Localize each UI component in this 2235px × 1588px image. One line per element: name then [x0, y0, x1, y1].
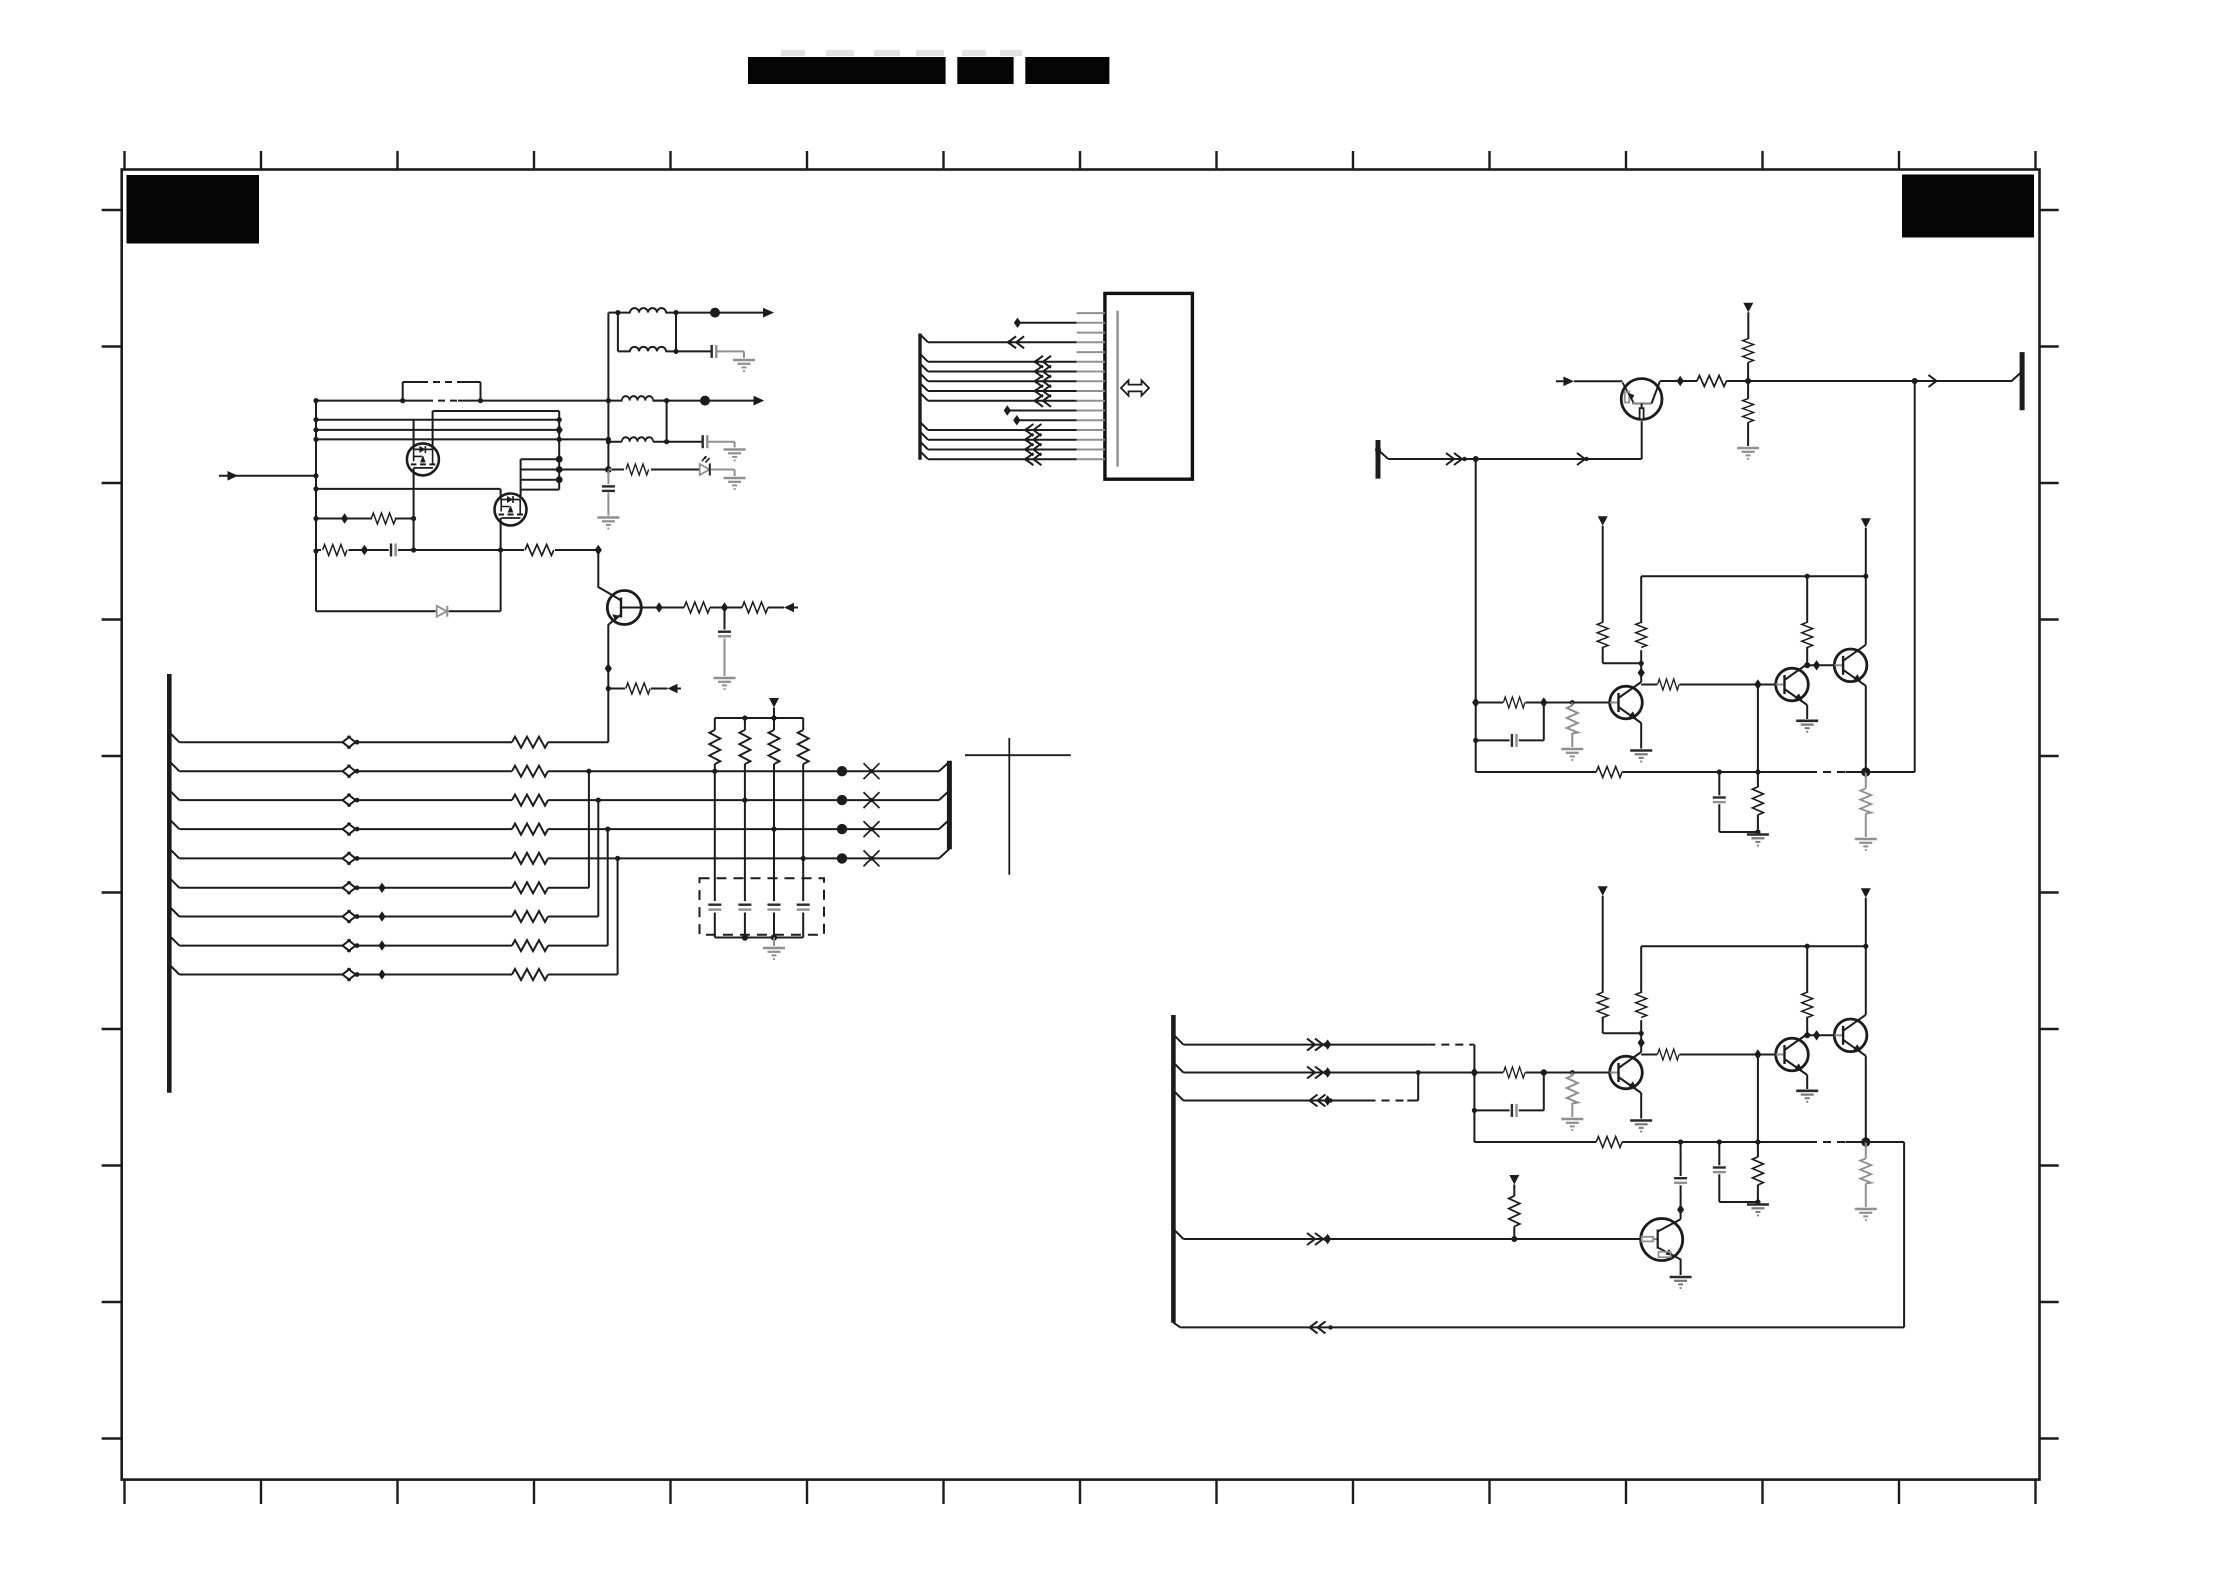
wire filter A left vertical [617, 313, 619, 352]
node emitter chain resistor tap [606, 686, 611, 691]
diamond junction on emitter chain [605, 663, 612, 673]
double chevron marker pin 16 [1025, 453, 1042, 465]
wire join row I to row E [617, 858, 619, 974]
resistor mid base bleed [1567, 706, 1578, 734]
cross marker row D [864, 821, 880, 837]
node bank rail 1 [742, 715, 747, 720]
wire Q1 source lead down [413, 468, 415, 551]
wire row B [179, 770, 939, 772]
diamond junction base row 1 [656, 602, 663, 612]
capacitor C2 [703, 435, 708, 448]
ground mid shunt [1747, 835, 1769, 846]
wire gate resistor row R-G1 [316, 518, 414, 520]
resistor R-LED [626, 464, 649, 475]
wire LED to ground [710, 470, 734, 477]
capacitor C-B1 [718, 632, 731, 637]
wire L3-L4 right vertical [666, 401, 668, 442]
inductor L2 [630, 347, 666, 352]
resistor R-rowC [512, 795, 548, 806]
wire winding row 3 [316, 438, 608, 440]
connector J1 double-arrow symbol [1121, 380, 1149, 395]
wire bottom row2 from bus [1173, 1063, 1474, 1073]
wire mid Ra bottom [1603, 647, 1642, 664]
ground bot bleed [1561, 1119, 1583, 1130]
wire mid shunt leads [1757, 772, 1759, 832]
wire connector pin 11 from diamond [1007, 410, 1076, 412]
wire mid bleed to ground [1571, 733, 1573, 747]
node L3-L4 right vertical top [664, 398, 669, 403]
capacitor mid bottom [1718, 772, 1720, 795]
resistor mid right shunt [1860, 788, 1871, 813]
connector pin 8 stub [1077, 380, 1105, 382]
node stub bar tap [1375, 447, 1381, 453]
node mid cap row [1473, 738, 1478, 743]
wire mid Rc chain [1806, 576, 1808, 664]
wire T4 collector chain up [1680, 1142, 1682, 1219]
wire bus entry row F [169, 878, 179, 888]
connector pin 6 stub [1077, 361, 1105, 363]
connector pin 16 stub [1077, 458, 1105, 460]
node T4 chain at bottom row [1678, 1139, 1683, 1144]
node filter A top-left [615, 310, 620, 315]
wire T4 pull-up stem [1513, 1185, 1515, 1197]
frame tick marks right [2040, 210, 2059, 1439]
wire long right vertical to lower row [1914, 381, 1916, 772]
bidirectional marker row A [343, 736, 360, 748]
bidirectional marker row I [343, 968, 360, 980]
wire T4 pull-up to row [1513, 1227, 1515, 1239]
wire mid Rb top to rail [1641, 576, 1866, 623]
wire row E [179, 857, 939, 859]
node top-right tee [1912, 378, 1918, 384]
wire R12 to node [1747, 362, 1749, 381]
wire resistor bank top rail [715, 717, 803, 719]
resistor bot Ra [1597, 992, 1608, 1017]
wire mid bleed resistor top [1571, 703, 1573, 707]
wire bank ground stem [773, 938, 775, 947]
inductor L3 [622, 396, 653, 401]
node row D at resistor-bank column [771, 827, 776, 832]
wire C2 to ground [707, 442, 734, 448]
wire L1 left stub [618, 312, 676, 314]
diamond junction row H [378, 940, 385, 950]
node RC row meets Q2 source chain [498, 547, 503, 552]
node ladder rung 1 [556, 456, 563, 463]
bidirectional marker row D [343, 823, 360, 835]
wire base row capacitor leg [724, 608, 726, 630]
double chevron marker pin 10 [1034, 395, 1051, 407]
wire bot bleed to ground [1571, 1103, 1573, 1117]
arrow off-page left on base row [784, 603, 794, 612]
ground bot shunt [1747, 1205, 1769, 1216]
wire row C [179, 799, 939, 801]
capacitor C1 [712, 345, 717, 358]
wire Q2 gate row [316, 488, 501, 490]
wire Q3 base row [641, 607, 798, 609]
connector pin 1 stub [1077, 312, 1105, 314]
diamond junction collector feed [595, 545, 602, 555]
diamond junction row3 [1324, 1095, 1331, 1105]
capacitor bot speedup [1512, 1104, 1517, 1117]
node mid rail supply [1863, 574, 1868, 579]
wire mid bottom row dashed part [1809, 771, 1846, 773]
ground T4 emitter [1670, 1277, 1692, 1288]
transistor Q1 dual-MOSFET half A [407, 443, 439, 475]
dashed box around capacitor bank [700, 878, 825, 934]
wire bottom row1 from bus [1173, 1035, 1474, 1045]
node bank rail 2 [771, 715, 776, 720]
diamond junction mid T2 base [1754, 679, 1761, 689]
wire row H [179, 945, 607, 947]
transistor mid-T2 NPN [1776, 664, 1809, 705]
chevron marker top-right [1929, 375, 1937, 387]
wire bottom jog right vertical [1866, 1142, 1904, 1327]
node mid shunt ground [1755, 829, 1760, 834]
wire bottom row5 return [1173, 1323, 1904, 1328]
wire mid bottom row [1476, 771, 1866, 773]
wire Q10 emitter row [1378, 450, 1642, 459]
wire L2 to capacitor C1 [676, 350, 712, 352]
wire bank column 3 [773, 718, 775, 938]
capacitor mid speedup [1512, 734, 1517, 747]
node rail junction [313, 486, 318, 491]
node rail junction [313, 548, 318, 553]
capacitor T4 collector [1674, 1178, 1687, 1183]
wire left rail of FET block [315, 401, 317, 612]
double chevron marker pin 6 [1034, 356, 1051, 368]
double chevron marker emitter row [1446, 453, 1467, 465]
transistor mid-T3 NPN [1834, 645, 1867, 686]
double chevron marker pin 7 [1034, 366, 1051, 378]
frame tick marks bottom [125, 1480, 2036, 1504]
resistor bot Rb [1636, 992, 1647, 1017]
diamond terminal pin 2 [1014, 318, 1021, 328]
resistor R-rowI [512, 969, 548, 980]
wire winding ladder bottom rung [521, 489, 560, 491]
double chevron marker row3 left-pointing [1310, 1095, 1333, 1107]
wire bot T1-T2 base row [1641, 1054, 1776, 1056]
wire row C bus-bar entry [939, 791, 949, 801]
wire bot bleed resistor top [1571, 1073, 1573, 1077]
capacitor C-bank2 [738, 905, 751, 910]
jumper box with dashed edges [403, 382, 481, 401]
wire bottom row3 from bus [1173, 1073, 1418, 1101]
diamond junction mid base row [1472, 697, 1479, 707]
wire bot bottom row dashed part [1809, 1141, 1846, 1143]
diamond junction bot T1 collector [1638, 1038, 1645, 1048]
wire dashed segment under jumper box [426, 400, 458, 402]
cross marker row B [864, 763, 880, 779]
node row B at resistor-bank column [712, 769, 717, 774]
wire Q1 drain lead [432, 411, 434, 449]
wire Q3 emitter chain down [608, 624, 609, 743]
ground mid T1 emitter [1630, 751, 1652, 762]
wire connector pin 2 from diamond [1018, 322, 1077, 324]
diamond junction row4 [1324, 1234, 1331, 1244]
node rail junction [313, 427, 318, 432]
bus connector-side vertical [918, 334, 921, 460]
wire Q10 emitter down to row [1641, 421, 1643, 459]
wire bus entry row I [169, 965, 179, 975]
wire bot supply B stem [1865, 898, 1867, 946]
wire row D bus-bar entry [939, 820, 949, 830]
wire connector pin 9 from bus [920, 383, 1077, 391]
cross-reference cross mark [965, 738, 1071, 875]
wire T4 emitter to ground [1678, 1258, 1681, 1275]
wire bus entry row A [169, 732, 179, 742]
cross marker row E [864, 850, 880, 866]
wire bus entry row C [169, 790, 179, 800]
resistor R-bank1 [709, 730, 720, 764]
node rail junction [313, 473, 318, 478]
resistor mid Ra [1597, 622, 1608, 647]
wire bot-T1 emitter to ground [1640, 1093, 1642, 1119]
node L4 right [664, 439, 669, 444]
wire bot cap row [1474, 1073, 1543, 1111]
node output row 2 [700, 396, 710, 406]
ground mid right shunt [1855, 839, 1877, 850]
diamond junction mid T1 collector [1638, 668, 1645, 678]
wire connector pin 15 from bus [920, 442, 1077, 450]
node RC row meets Q1 source chain [411, 547, 416, 552]
title redaction box 3 [1025, 57, 1109, 84]
transistor mid-T1 NPN [1610, 682, 1643, 723]
node bot cap row [1472, 1108, 1477, 1113]
node winding row 3 at inner bus [557, 437, 562, 442]
wire row A [179, 741, 608, 743]
capacitor C-RC1 [391, 544, 396, 557]
node row4 pull-up tap [1511, 1236, 1517, 1242]
wire join row H to row D [607, 829, 609, 946]
wire connector pin 10 from bus [920, 393, 1077, 401]
resistor bot feedback [1596, 1137, 1622, 1148]
wire emitter tap row [608, 688, 681, 690]
wire cap to ground [607, 493, 609, 516]
bidirectional marker row H [343, 939, 360, 951]
wire winding ladder rung 1 [521, 458, 560, 460]
wire bottom return with diode [316, 610, 501, 612]
power supply arrow bot B [1861, 888, 1871, 898]
resistor R-rowB [512, 766, 548, 777]
wire cap leg to ground [724, 639, 726, 677]
node mid base bleed tap [1570, 700, 1575, 705]
diamond junction base row 2 [721, 602, 728, 612]
capacitor C-BUS on vertical bus [602, 486, 615, 491]
ground bot T1 emitter [1630, 1121, 1652, 1132]
wire bot-T1 collector up [1640, 1020, 1642, 1052]
wire bottom row4 from bus [1173, 1229, 1640, 1239]
wire bot-T3 collector up [1865, 946, 1867, 1015]
wire bot-T2 collector up [1806, 1033, 1808, 1035]
power supply arrow above T4 [1509, 1175, 1519, 1185]
corner label box top-right [1902, 175, 2034, 238]
capacitor C-bank4 [797, 905, 810, 910]
double chevron marker row2 [1307, 1067, 1328, 1079]
connector pin 2 stub [1077, 322, 1105, 324]
resistor bot base series [1503, 1067, 1525, 1078]
diamond junction bot base row [1471, 1067, 1478, 1077]
inductor L1 [630, 308, 666, 313]
wire join row G to row C [597, 800, 599, 916]
arrow output row 2 [754, 396, 765, 406]
resistor R-rowA [512, 737, 548, 748]
node output row 1 [710, 308, 720, 318]
bidirectional marker row B [343, 765, 360, 777]
connector pin 13 stub [1077, 429, 1105, 431]
wire mid-T2 collector up [1806, 663, 1808, 665]
diamond junction row G [378, 911, 385, 921]
resistor R-rowH [512, 940, 548, 951]
wire connector pin 8 from bus [920, 373, 1077, 381]
connector pin 7 stub [1077, 371, 1105, 373]
wire bus entry row D [169, 819, 179, 829]
wire bot Ra bottom [1603, 1017, 1642, 1034]
wire mid bottom cap lower [1719, 804, 1758, 832]
wire mid bottom row jog to right vertical [1866, 771, 1915, 773]
transistor bot-T3 NPN [1834, 1015, 1867, 1056]
node winding row 3 at vertical bus [606, 437, 611, 442]
ground below C-BUS [597, 518, 619, 529]
cross marker row C [864, 792, 880, 808]
node jumper box left pin [400, 398, 405, 403]
ground below C1 [733, 360, 755, 371]
resistor mid interstage [1658, 679, 1680, 690]
connector pin 11 stub [1077, 410, 1105, 412]
resistor R-G1 [371, 513, 395, 524]
wire winding ladder rung 2 [521, 469, 560, 471]
node ladder rung 3 [556, 476, 563, 483]
diamond junction mid base mid [1540, 697, 1547, 707]
wire output row 1 [676, 312, 763, 314]
node bot T2 collector [1804, 1032, 1810, 1038]
wire row D [179, 828, 939, 830]
wire bottom row1 dashed [1427, 1044, 1472, 1046]
diamond junction bot T3 base [1813, 1030, 1820, 1040]
bus stub bar left of Q10 row [1376, 440, 1381, 479]
wire join row F to row B [588, 771, 590, 888]
node filter A top-right [673, 310, 678, 315]
resistor mid feedback [1596, 767, 1622, 778]
ground below R13 [1737, 448, 1759, 459]
node mid rail Rc [1805, 574, 1810, 579]
wire bus entry row E [169, 848, 179, 858]
resistor R13 pull-down [1743, 399, 1754, 423]
wire bot Rb top to rail [1641, 946, 1866, 993]
node row D at return join [605, 827, 610, 832]
wire RC row under FETs [316, 549, 598, 551]
bidirectional marker row C [343, 794, 360, 806]
wire row G [179, 916, 598, 918]
wire mid-T3 emitter down [1865, 686, 1867, 772]
ground mid T2 emitter [1796, 721, 1818, 732]
wire connector pin 13 from bus [920, 422, 1077, 430]
resistor mid Rb [1636, 622, 1647, 647]
resistor R-RC1 [323, 545, 347, 556]
wire bot shunt leads [1757, 1142, 1759, 1202]
resistor bot interstage [1658, 1049, 1680, 1060]
ground bot right shunt [1855, 1209, 1877, 1220]
node winding row 1 at inner bus [557, 417, 562, 422]
wire supply stem [773, 708, 775, 719]
connector pin 12 stub [1077, 419, 1105, 421]
power supply arrow mid A [1598, 516, 1608, 526]
node winding row 2 at inner bus (diamond) [556, 425, 563, 435]
wire filter A right vertical [675, 313, 677, 352]
wire connector pin 6 from bus [920, 354, 1077, 362]
node mid T2 collector [1804, 662, 1810, 668]
ground below LED [724, 478, 746, 489]
LED D1 [700, 456, 710, 476]
node rail junction [313, 516, 318, 521]
wire bot left vertical [1473, 1045, 1475, 1142]
wire bus gray tail [607, 471, 609, 484]
connector pin 14 stub [1077, 439, 1105, 441]
diamond junction row F [378, 883, 385, 893]
arrow input right-pointing [228, 471, 239, 481]
wire row B bus-bar entry [939, 762, 949, 772]
node row E at resistor-bank column [801, 856, 806, 861]
wire connector pin 14 from bus [920, 432, 1077, 440]
wire input line with arrow [219, 475, 316, 477]
ground below C2 [724, 450, 746, 461]
arrow output row 1 [763, 308, 774, 318]
connector pin 5 stub [1077, 351, 1105, 353]
resistor mid bottom shunt [1752, 787, 1763, 815]
connector pin 15 stub [1077, 449, 1105, 451]
wire jog to filter A [608, 312, 618, 314]
diamond terminal pin 11 [1004, 405, 1011, 415]
power supply arrow bot A [1598, 886, 1608, 896]
frame border [122, 170, 2040, 1480]
resistor bot bottom shunt [1752, 1157, 1763, 1185]
wire row F [179, 887, 589, 889]
bus-bar bracket right [947, 761, 952, 850]
resistor R11 [1697, 376, 1727, 387]
bus left thick vertical [167, 674, 172, 1093]
ground below capacitor bank [763, 948, 785, 959]
node bot Ra join [1639, 1031, 1644, 1036]
capacitor C-bank3 [768, 905, 781, 910]
ground bot T2 emitter [1796, 1091, 1818, 1102]
diamond junction mid T3 base [1813, 660, 1820, 670]
wire bank column 2 [744, 718, 746, 938]
node mid bottom cap tap [1717, 769, 1722, 774]
wire bot T2-T3 base link [1807, 1034, 1834, 1036]
node ladder rung 2 [556, 466, 563, 473]
power supply arrow above bank [769, 698, 779, 708]
wire bot-T3 emitter down [1865, 1056, 1867, 1142]
node collector divider [1745, 378, 1751, 384]
wire capacitor bank bottom rail [715, 937, 803, 939]
node vertical bus top row [606, 398, 611, 403]
wire L2 stubs [618, 350, 676, 352]
wire Q10 collector row [1660, 372, 2022, 382]
power supply arrow V1 [1743, 303, 1753, 313]
resistor R-rowD [512, 824, 548, 835]
bidirectional marker row G [343, 910, 360, 922]
double chevron marker pin 4 [1007, 336, 1024, 348]
wire connector pin 12 from diamond [1017, 419, 1077, 421]
node row C at resistor-bank column [742, 798, 747, 803]
resistor R-rowG [512, 911, 548, 922]
resistor R-bank3 [769, 730, 780, 764]
double chevron marker row1 [1307, 1039, 1328, 1051]
node bot base bleed tap [1570, 1070, 1575, 1075]
resistor bot Rc [1802, 992, 1813, 1017]
wire top net from rail to vertical bus [316, 400, 608, 402]
node bot rail Rc [1805, 944, 1810, 949]
node bot bottom cap tap [1717, 1139, 1722, 1144]
